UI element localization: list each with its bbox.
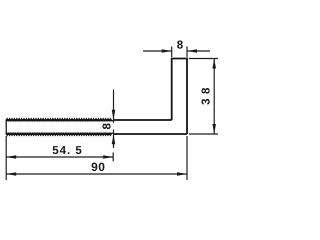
- svg-text:90: 90: [91, 160, 105, 174]
- svg-text:8: 8: [177, 39, 184, 51]
- svg-text:54. 5: 54. 5: [52, 145, 83, 157]
- svg-text:8: 8: [102, 123, 114, 130]
- svg-text:38: 38: [201, 83, 213, 105]
